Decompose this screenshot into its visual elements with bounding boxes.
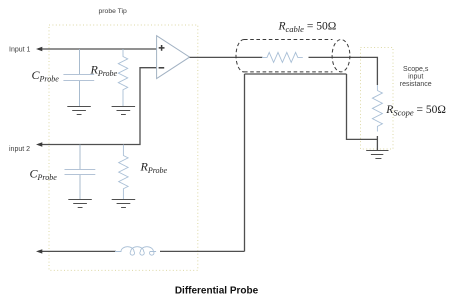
svg-text:Differential Probe: Differential Probe [175,286,259,297]
svg-text:input 2: input 2 [9,146,30,153]
wire input 2 to minus input [38,68,159,145]
resistor R_Probe 2 [119,145,128,200]
svg-text:input: input [408,74,423,81]
ground under R_Probe 1 [112,107,136,115]
svg-text:Input 1: Input 1 [9,47,31,54]
ground under C1 [67,107,91,115]
probe tip dashed box [49,25,198,270]
wire cable to scope [309,57,378,85]
arrowhead input 2 [36,142,42,146]
shield return wire [245,74,378,251]
op-amp minus sign [159,67,165,69]
op-amp output wire [190,56,263,58]
wire input 1 [38,48,159,50]
svg-text:probe Tip: probe Tip [99,8,128,15]
capacitor C1 plates [63,75,94,81]
op-amp U1 [157,36,190,79]
ground under R_Probe 2 [112,200,136,208]
arrowhead bottom wire [36,249,42,253]
resistor R_Probe 1 [118,49,127,107]
svg-text:resistance: resistance [400,81,432,88]
capacitor C2 lead [79,145,81,200]
cable capsule left arc [236,40,244,72]
ground under R_Scope [366,151,388,159]
arrowhead input 1 [36,47,42,51]
cable capsule bottom [244,71,333,73]
bottom return wire [38,250,245,252]
svg-text:Scope,s: Scope,s [403,66,429,73]
scope dashed box [361,48,394,150]
capacitor C1 lead [79,49,81,107]
cable capsule right end ellipse [332,40,350,72]
ground under C2 [68,200,92,208]
wire R_Scope bottom to ground [376,136,378,151]
cable capsule top [244,39,333,41]
resistor R_cable [262,52,303,62]
resistor R_Scope [372,85,382,131]
op-amp plus sign [159,45,165,51]
capacitor C2 plates [65,170,96,175]
inductor L1 [115,247,156,255]
